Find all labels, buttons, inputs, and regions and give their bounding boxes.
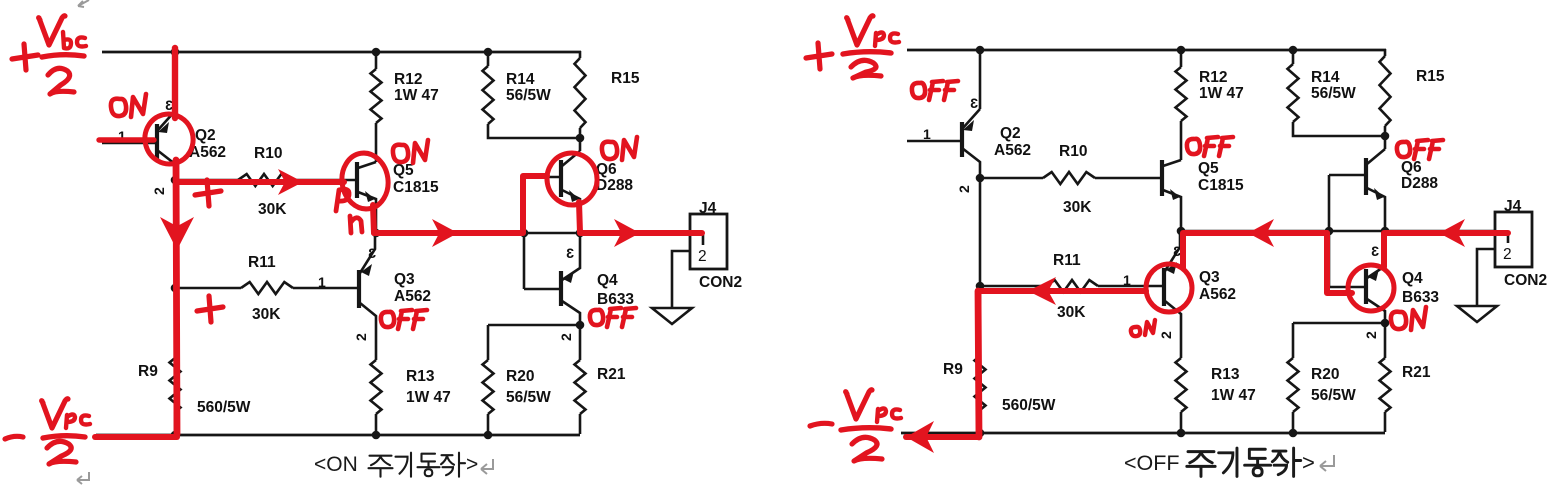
label CON2 (left): [699, 274, 742, 291]
label R21 (left): [597, 366, 626, 383]
red annotation ON at Q5 (left): [393, 140, 428, 163]
red annotation ON at Q3 (right): [1131, 320, 1155, 336]
resistor R15 (left): [575, 58, 586, 128]
label A562 of Q2 (left): [189, 144, 226, 161]
red circle around Q3 (right): [1146, 264, 1192, 312]
svg-text:R9: R9: [943, 361, 963, 378]
label A562 of Q3 (left): [394, 288, 431, 305]
resistor R13 (left): [371, 360, 382, 414]
svg-text:2: 2: [558, 333, 574, 341]
node base-column junction mid line (left): [520, 229, 529, 238]
svg-text:Q5: Q5: [1198, 160, 1219, 177]
svg-text:560/5W: 560/5W: [1002, 397, 1056, 414]
node Q2 emitter junction (left): [171, 176, 180, 185]
gray pilcrow arrow bottom-left: [77, 472, 89, 484]
label R15 (left): [611, 70, 640, 87]
ground symbol (left): [652, 308, 692, 324]
transistor Q3 (left): [359, 233, 376, 360]
node Q2 emitter junction (right): [976, 174, 985, 183]
node top-rail junction R12 (left): [372, 48, 381, 57]
pin 3 label Q3 (left): [368, 245, 376, 261]
wire R10 to Q5 base (right): [1095, 177, 1161, 180]
wire R20 to bottom rail (right): [1292, 412, 1295, 433]
wire R12 to Q5 collector (left): [375, 123, 378, 162]
resistor R12 (left): [371, 69, 382, 123]
resistor R20 (left): [483, 360, 494, 414]
wire Q2 emitter to R10 (left): [177, 179, 238, 182]
label Q2 (right): [1000, 125, 1021, 142]
gray pilcrow arrow top-left: [78, 0, 89, 7]
svg-text:>: >: [466, 453, 478, 476]
wire R11 to Q3 base (right): [1098, 285, 1163, 288]
red label +Vbc/2 supply (left): [12, 16, 86, 94]
svg-text:R11: R11: [248, 254, 276, 271]
node top-rail junction left column (right): [976, 46, 985, 55]
svg-text:3: 3: [1173, 243, 1181, 259]
svg-text:1: 1: [923, 126, 931, 142]
gray pilcrow arrow after right caption: [1320, 455, 1334, 471]
transistor Q6 (right): [1329, 149, 1385, 231]
label R12 (left): [394, 71, 422, 88]
red arrowhead toward CON2 (left): [614, 219, 640, 247]
wire left column mid (right): [979, 178, 982, 356]
node Q5/Q3 emitter junction (left): [372, 229, 381, 238]
node Q4 emitter junction (right): [1381, 319, 1390, 328]
label A562 of Q2 (right): [994, 142, 1031, 159]
resistor R21 (left): [575, 360, 586, 414]
svg-text:A562: A562: [1199, 286, 1236, 303]
red current path: bottom rail to -V (right): [906, 434, 978, 440]
red arrowhead down on left column (left): [160, 217, 194, 250]
svg-text:2: 2: [1158, 331, 1174, 339]
wire R9 to bottom rail (left): [174, 412, 177, 435]
label 56/5W of R14 (right): [1311, 85, 1356, 102]
wire R14 to node (left): [488, 124, 580, 138]
label C1815 of Q5 (right): [1198, 177, 1244, 194]
red annotation ON at Q2 (left): [111, 94, 146, 117]
label Q4 (right): [1402, 270, 1423, 287]
svg-text:R15: R15: [611, 70, 640, 87]
red arrowhead at -V (right): [906, 421, 934, 453]
node bottom rail R20 (right): [1289, 429, 1298, 438]
node top-rail junction R14 (right): [1289, 46, 1298, 55]
red label n (left): [350, 216, 362, 233]
red annotation OFF at Q4 (left): [590, 308, 636, 327]
resistor R20 (right): [1288, 358, 1299, 412]
node bottom rail R13 (right): [1177, 429, 1186, 438]
svg-text:56/5W: 56/5W: [506, 87, 551, 104]
red current path: Q5 emitter down to mid line (left): [373, 205, 374, 233]
label 1W 47 of R13 (right): [1211, 387, 1256, 404]
label A562 of Q3 (right): [1199, 286, 1236, 303]
label Q4 (left): [597, 272, 618, 289]
wire +V top rail (left): [102, 51, 581, 54]
svg-text:Q4: Q4: [597, 272, 618, 289]
node R11 junction (right): [976, 282, 985, 291]
pin 2 label CON2 (right): [1503, 246, 1512, 263]
svg-text:Q5: Q5: [393, 162, 414, 179]
wire to R21 (left): [579, 325, 582, 360]
svg-text:R21: R21: [1402, 364, 1431, 381]
label R13 (right): [1211, 366, 1240, 383]
svg-text:B633: B633: [1402, 289, 1439, 306]
svg-text:J4: J4: [1504, 198, 1522, 215]
wire R21 to bottom rail (right): [1384, 412, 1387, 432]
node top-rail junction left column (left): [171, 48, 180, 57]
svg-text:1W 47: 1W 47: [394, 87, 439, 104]
wire output mid line (left): [376, 232, 690, 235]
svg-text:J4: J4: [699, 200, 717, 217]
svg-text:R9: R9: [138, 363, 158, 380]
pin 3 label Q4 (left): [566, 245, 574, 261]
label 30K of R10 (left): [258, 201, 287, 218]
svg-text:R10: R10: [254, 145, 282, 162]
red circle around Q4 (right): [1348, 265, 1394, 311]
wire -V bottom rail (right): [901, 432, 1385, 435]
node R14/R15/Q6 junction (left): [576, 134, 585, 143]
wire R9 to bottom rail (right): [979, 410, 982, 433]
node bottom rail R13 (left): [372, 431, 381, 440]
pin 2 label Q3 (left): [353, 333, 369, 341]
node Q4 emitter junction (left): [576, 321, 585, 330]
resistor R11 (right): [1046, 280, 1098, 292]
red label P (left): [336, 189, 349, 211]
wire R13 to bottom rail (left): [375, 414, 378, 435]
node Q6/Q4 junction mid line (right): [1381, 227, 1390, 236]
svg-text:56/5W: 56/5W: [1311, 387, 1356, 404]
pin 2 label Q2 (right): [956, 185, 972, 193]
svg-text:R14: R14: [1311, 69, 1340, 86]
label 1W 47 of R12 (right): [1199, 85, 1244, 102]
label 560/5W of R9 (left): [197, 399, 251, 416]
wire rail to R12 (left): [375, 52, 378, 69]
label 1W 47 of R12 (left): [394, 87, 439, 104]
label R13 (left): [406, 368, 435, 385]
red stroke over Q2 base lead (left): [99, 137, 154, 142]
wire R11 from left column (left): [175, 287, 241, 290]
svg-text:<ON: <ON: [314, 453, 358, 476]
svg-text:1W 47: 1W 47: [1211, 387, 1256, 404]
svg-text:3: 3: [970, 95, 978, 111]
node base-column junction mid line (right): [1325, 227, 1334, 236]
transistor Q2 (left): [102, 111, 175, 180]
label R14 (left): [506, 71, 535, 88]
label 30K of R11 (left): [252, 306, 281, 323]
svg-text:2: 2: [1503, 246, 1512, 263]
resistor R10 (left): [238, 174, 290, 186]
caption: <ON cycle operation> (left): [314, 453, 478, 477]
label R20 (left): [506, 368, 534, 385]
svg-text:R21: R21: [597, 366, 626, 383]
red current path: down left column to bottom rail (right): [978, 291, 979, 437]
red circle around Q5 (left): [338, 150, 391, 212]
svg-text:3: 3: [368, 245, 376, 261]
label R10 (left): [254, 145, 282, 162]
red label +Vpc/2 supply (right): [806, 16, 899, 78]
svg-text:Q3: Q3: [394, 271, 415, 288]
red annotation OFF at Q5 (right): [1187, 137, 1233, 156]
resistor R11 (left): [241, 282, 293, 294]
pin 3 label Q4 (right): [1371, 243, 1379, 259]
svg-text:1: 1: [1123, 272, 1131, 288]
label R9 (right): [943, 361, 963, 378]
pin 1 label Q3 (left): [318, 274, 326, 290]
wire CON2 pin2 to ground (left): [672, 251, 690, 307]
label D288 of Q6 (right): [1401, 175, 1438, 192]
label 56/5W of R20 (right): [1311, 387, 1356, 404]
resistor R15 (right): [1380, 56, 1391, 126]
wire to R20 (right): [1292, 323, 1295, 358]
svg-text:A562: A562: [994, 142, 1031, 159]
resistor R13 (right): [1176, 358, 1187, 412]
red plus mark near R11 (left): [197, 296, 223, 322]
wire R12 to Q5 collector (right): [1180, 121, 1183, 160]
label R15 (right): [1416, 68, 1445, 85]
wire rail to R14 (left): [487, 52, 490, 66]
svg-text:3: 3: [1371, 243, 1379, 259]
node R14/R15/Q6 junction (right): [1381, 132, 1390, 141]
label Q3 (right): [1199, 269, 1220, 286]
label Q2 (left): [195, 127, 216, 144]
label R10 (right): [1059, 143, 1087, 160]
label R11 (right): [1053, 252, 1081, 269]
label Q5 (right): [1198, 160, 1219, 177]
svg-text:2: 2: [151, 187, 167, 195]
node bottom rail left column (left): [171, 431, 180, 440]
red current path: mid line toward Q3 (right): [1183, 233, 1327, 268]
wire node to Q6 collector (right): [1384, 136, 1387, 149]
node bottom rail R20 (left): [484, 431, 493, 440]
svg-text:A562: A562: [394, 288, 431, 305]
label B633 of Q4 (right): [1402, 289, 1439, 306]
red circle around Q6 (left): [543, 149, 601, 209]
red annotation OFF at Q6 (right): [1397, 140, 1443, 159]
node bottom rail left column (right): [976, 429, 985, 438]
red current path: Q4 base to mid line (right): [1327, 233, 1352, 293]
label 1W 47 of R13 (left): [406, 389, 451, 406]
red annotation OFF at Q2 (right): [912, 81, 958, 100]
svg-text:R10: R10: [1059, 143, 1087, 160]
resistor R14 (left): [483, 66, 494, 124]
red current path: Q6 emitter to CON2 (left): [579, 202, 702, 233]
wire R20/R21 top line (right): [1293, 322, 1385, 325]
pin 2 label Q4 (left): [558, 333, 574, 341]
pin 2 label Q3 (right): [1158, 331, 1174, 339]
node top-rail junction R14 (left): [484, 48, 493, 57]
wire rail corner to R15 (right): [1384, 49, 1387, 56]
svg-text:>: >: [1302, 450, 1315, 475]
pin 2 label CON2 (left): [698, 248, 707, 265]
label C1815 of Q5 (left): [393, 179, 439, 196]
svg-text:R20: R20: [1311, 366, 1339, 383]
svg-text:2: 2: [1363, 331, 1379, 339]
svg-text:2: 2: [956, 185, 972, 193]
node Q6/Q4 junction mid line (left): [576, 229, 585, 238]
wire -V bottom rail (left): [96, 434, 580, 437]
label Q3 (left): [394, 271, 415, 288]
pin 3 label Q2 (right): [970, 95, 978, 111]
svg-text:<OFF: <OFF: [1124, 451, 1180, 475]
red label -Vpc/2 supply (right): [810, 390, 901, 461]
transistor Q4 (right): [1329, 231, 1385, 323]
label D288 of Q6 (left): [596, 177, 633, 194]
connector CON2 box (left): [690, 214, 727, 269]
pin 1 label Q3 (right): [1123, 272, 1131, 288]
wire rail to R12 (right): [1180, 50, 1183, 67]
resistor R10 (right): [1043, 172, 1095, 184]
gray pilcrow arrow after left caption: [481, 459, 493, 474]
resistor R14 (right): [1288, 64, 1299, 122]
svg-text:3: 3: [566, 245, 574, 261]
label R21 (right): [1402, 364, 1431, 381]
node Q5/Q3 emitter junction (right): [1177, 227, 1186, 236]
label 30K of R11 (right): [1057, 304, 1086, 321]
label R12 (right): [1199, 69, 1227, 86]
transistor Q6 (left): [524, 151, 580, 233]
svg-text:R15: R15: [1416, 68, 1445, 85]
red current path: Q2 emitter through R10 to Q5 (left): [178, 179, 344, 185]
red current path: Q2 to bottom rail (left): [176, 160, 177, 434]
node top-rail junction R12 (right): [1177, 46, 1186, 55]
svg-text:Q3: Q3: [1199, 269, 1220, 286]
red current path: CON2 to Q4 (right): [1384, 233, 1508, 267]
pin 1 label Q2 (left): [118, 128, 126, 144]
label J4 of CON2 (right): [1504, 198, 1522, 215]
resistor R21 (right): [1380, 358, 1391, 412]
label Q5 (left): [393, 162, 414, 179]
wire Q6/Q4 base column (left): [523, 177, 526, 289]
svg-text:30K: 30K: [1057, 304, 1086, 321]
connector CON2 box (right): [1495, 212, 1532, 267]
svg-text:D288: D288: [1401, 175, 1438, 192]
svg-text:2: 2: [698, 248, 707, 265]
svg-text:R12: R12: [1199, 69, 1227, 86]
svg-text:CON2: CON2: [699, 274, 742, 291]
svg-text:R12: R12: [394, 71, 422, 88]
pin 3 label Q2 (left): [165, 97, 173, 113]
svg-text:C1815: C1815: [393, 179, 439, 196]
wire R13 to bottom rail (right): [1180, 412, 1183, 433]
wire R15 to node (left): [579, 128, 582, 138]
svg-text:R11: R11: [1053, 252, 1081, 269]
red arrowhead on mid line (right): [1248, 219, 1274, 247]
wire Q6/Q4 base column (right): [1328, 175, 1331, 287]
red current path: top rail down through Q2 (left): [172, 48, 178, 118]
pin 1 tick CON2 (left): [702, 233, 705, 245]
label R9 (left): [138, 363, 158, 380]
wire R21 to bottom rail (left): [579, 414, 582, 434]
wire R20/R21 top line (left): [488, 324, 580, 327]
svg-text:56/5W: 56/5W: [1311, 85, 1356, 102]
pin 1 label Q2 (right): [923, 126, 931, 142]
red current path: mid line toward Q6 (left): [374, 176, 547, 233]
transistor Q5 (left): [357, 162, 376, 233]
label J4 of CON2 (left): [699, 200, 717, 217]
label 560/5W of R9 (right): [1002, 397, 1056, 414]
label B633 of Q4 (left): [597, 291, 634, 308]
pin 2 label Q4 (right): [1363, 331, 1379, 339]
svg-text:30K: 30K: [252, 306, 281, 323]
wire R20 to bottom rail (left): [487, 414, 490, 435]
wire CON2 pin2 to ground (right): [1477, 249, 1495, 305]
svg-text:30K: 30K: [1063, 199, 1092, 216]
red annotation ON at Q6 (left): [602, 137, 637, 160]
label 56/5W of R20 (left): [506, 389, 551, 406]
wire left column upper / Q2 collector (right): [979, 50, 982, 109]
node R11 junction (left): [171, 284, 180, 293]
red arrowhead on mid line (left): [432, 219, 458, 247]
resistor R9 (right): [975, 356, 986, 410]
label 30K of R10 (right): [1063, 199, 1092, 216]
red arrowhead on R10 path (left): [278, 169, 303, 195]
wire +V top rail (right): [907, 49, 1386, 52]
svg-text:56/5W: 56/5W: [506, 389, 551, 406]
svg-text:Q4: Q4: [1402, 270, 1423, 287]
label R20 (right): [1311, 366, 1339, 383]
svg-text:Q2: Q2: [1000, 125, 1021, 142]
wire R11 to Q3 base (left): [293, 287, 358, 290]
wire R11 from left column (right): [980, 285, 1046, 288]
svg-text:Q6: Q6: [1401, 159, 1422, 176]
label R11 (left): [248, 254, 276, 271]
wire to R21 (right): [1384, 323, 1387, 358]
red current path: bottom rail to -V (left): [95, 434, 177, 440]
wire rail corner to R15 (left): [579, 51, 582, 58]
svg-text:CON2: CON2: [1504, 272, 1547, 289]
red annotation OFF at Q3 (left): [381, 310, 427, 329]
svg-text:560/5W: 560/5W: [197, 399, 251, 416]
svg-text:R13: R13: [406, 368, 435, 385]
wire left column upper / Q2 collector (left): [174, 52, 177, 111]
resistor R9 (left): [170, 358, 181, 412]
resistor R12 (right): [1176, 67, 1187, 121]
label R14 (right): [1311, 69, 1340, 86]
pin 3 label Q3 (right): [1173, 243, 1181, 259]
wire output mid line (right): [1181, 230, 1495, 233]
svg-text:R14: R14: [506, 71, 535, 88]
transistor Q3 (right): [1164, 231, 1181, 358]
wire R10 to Q5 base (left): [290, 179, 356, 182]
svg-text:2: 2: [353, 333, 369, 341]
wire Q2 emitter to R10 (right): [982, 177, 1043, 180]
wire rail to R14 (right): [1292, 50, 1295, 64]
svg-text:1W 47: 1W 47: [1199, 85, 1244, 102]
label Q6 (left): [596, 161, 617, 178]
transistor Q5 (right): [1162, 160, 1181, 231]
label CON2 (right): [1504, 272, 1547, 289]
red annotation ON at Q4 (right): [1391, 307, 1426, 330]
label Q6 (right): [1401, 159, 1422, 176]
red arrowhead on R11 path (right): [1028, 277, 1056, 305]
svg-text:Q2: Q2: [195, 127, 216, 144]
red circle around Q2 (left): [139, 109, 198, 170]
wire left column mid (left): [174, 180, 177, 358]
svg-text:R20: R20: [506, 368, 534, 385]
red plus mark near R10 (left): [195, 180, 221, 206]
svg-text:D288: D288: [596, 177, 633, 194]
wire R14 to node (right): [1293, 122, 1385, 136]
svg-text:30K: 30K: [258, 201, 287, 218]
svg-text:C1815: C1815: [1198, 177, 1244, 194]
transistor Q4 (left): [524, 233, 580, 325]
caption: <OFF cycle operation> (right): [1124, 448, 1315, 476]
label 56/5W of R14 (left): [506, 87, 551, 104]
svg-text:B633: B633: [597, 291, 634, 308]
red label -Vpc/2 supply (left): [5, 399, 90, 464]
transistor Q2 (right): [907, 109, 980, 178]
red arrowhead from CON2 (right): [1439, 219, 1465, 247]
pin 2 label Q2 (left): [151, 187, 167, 195]
